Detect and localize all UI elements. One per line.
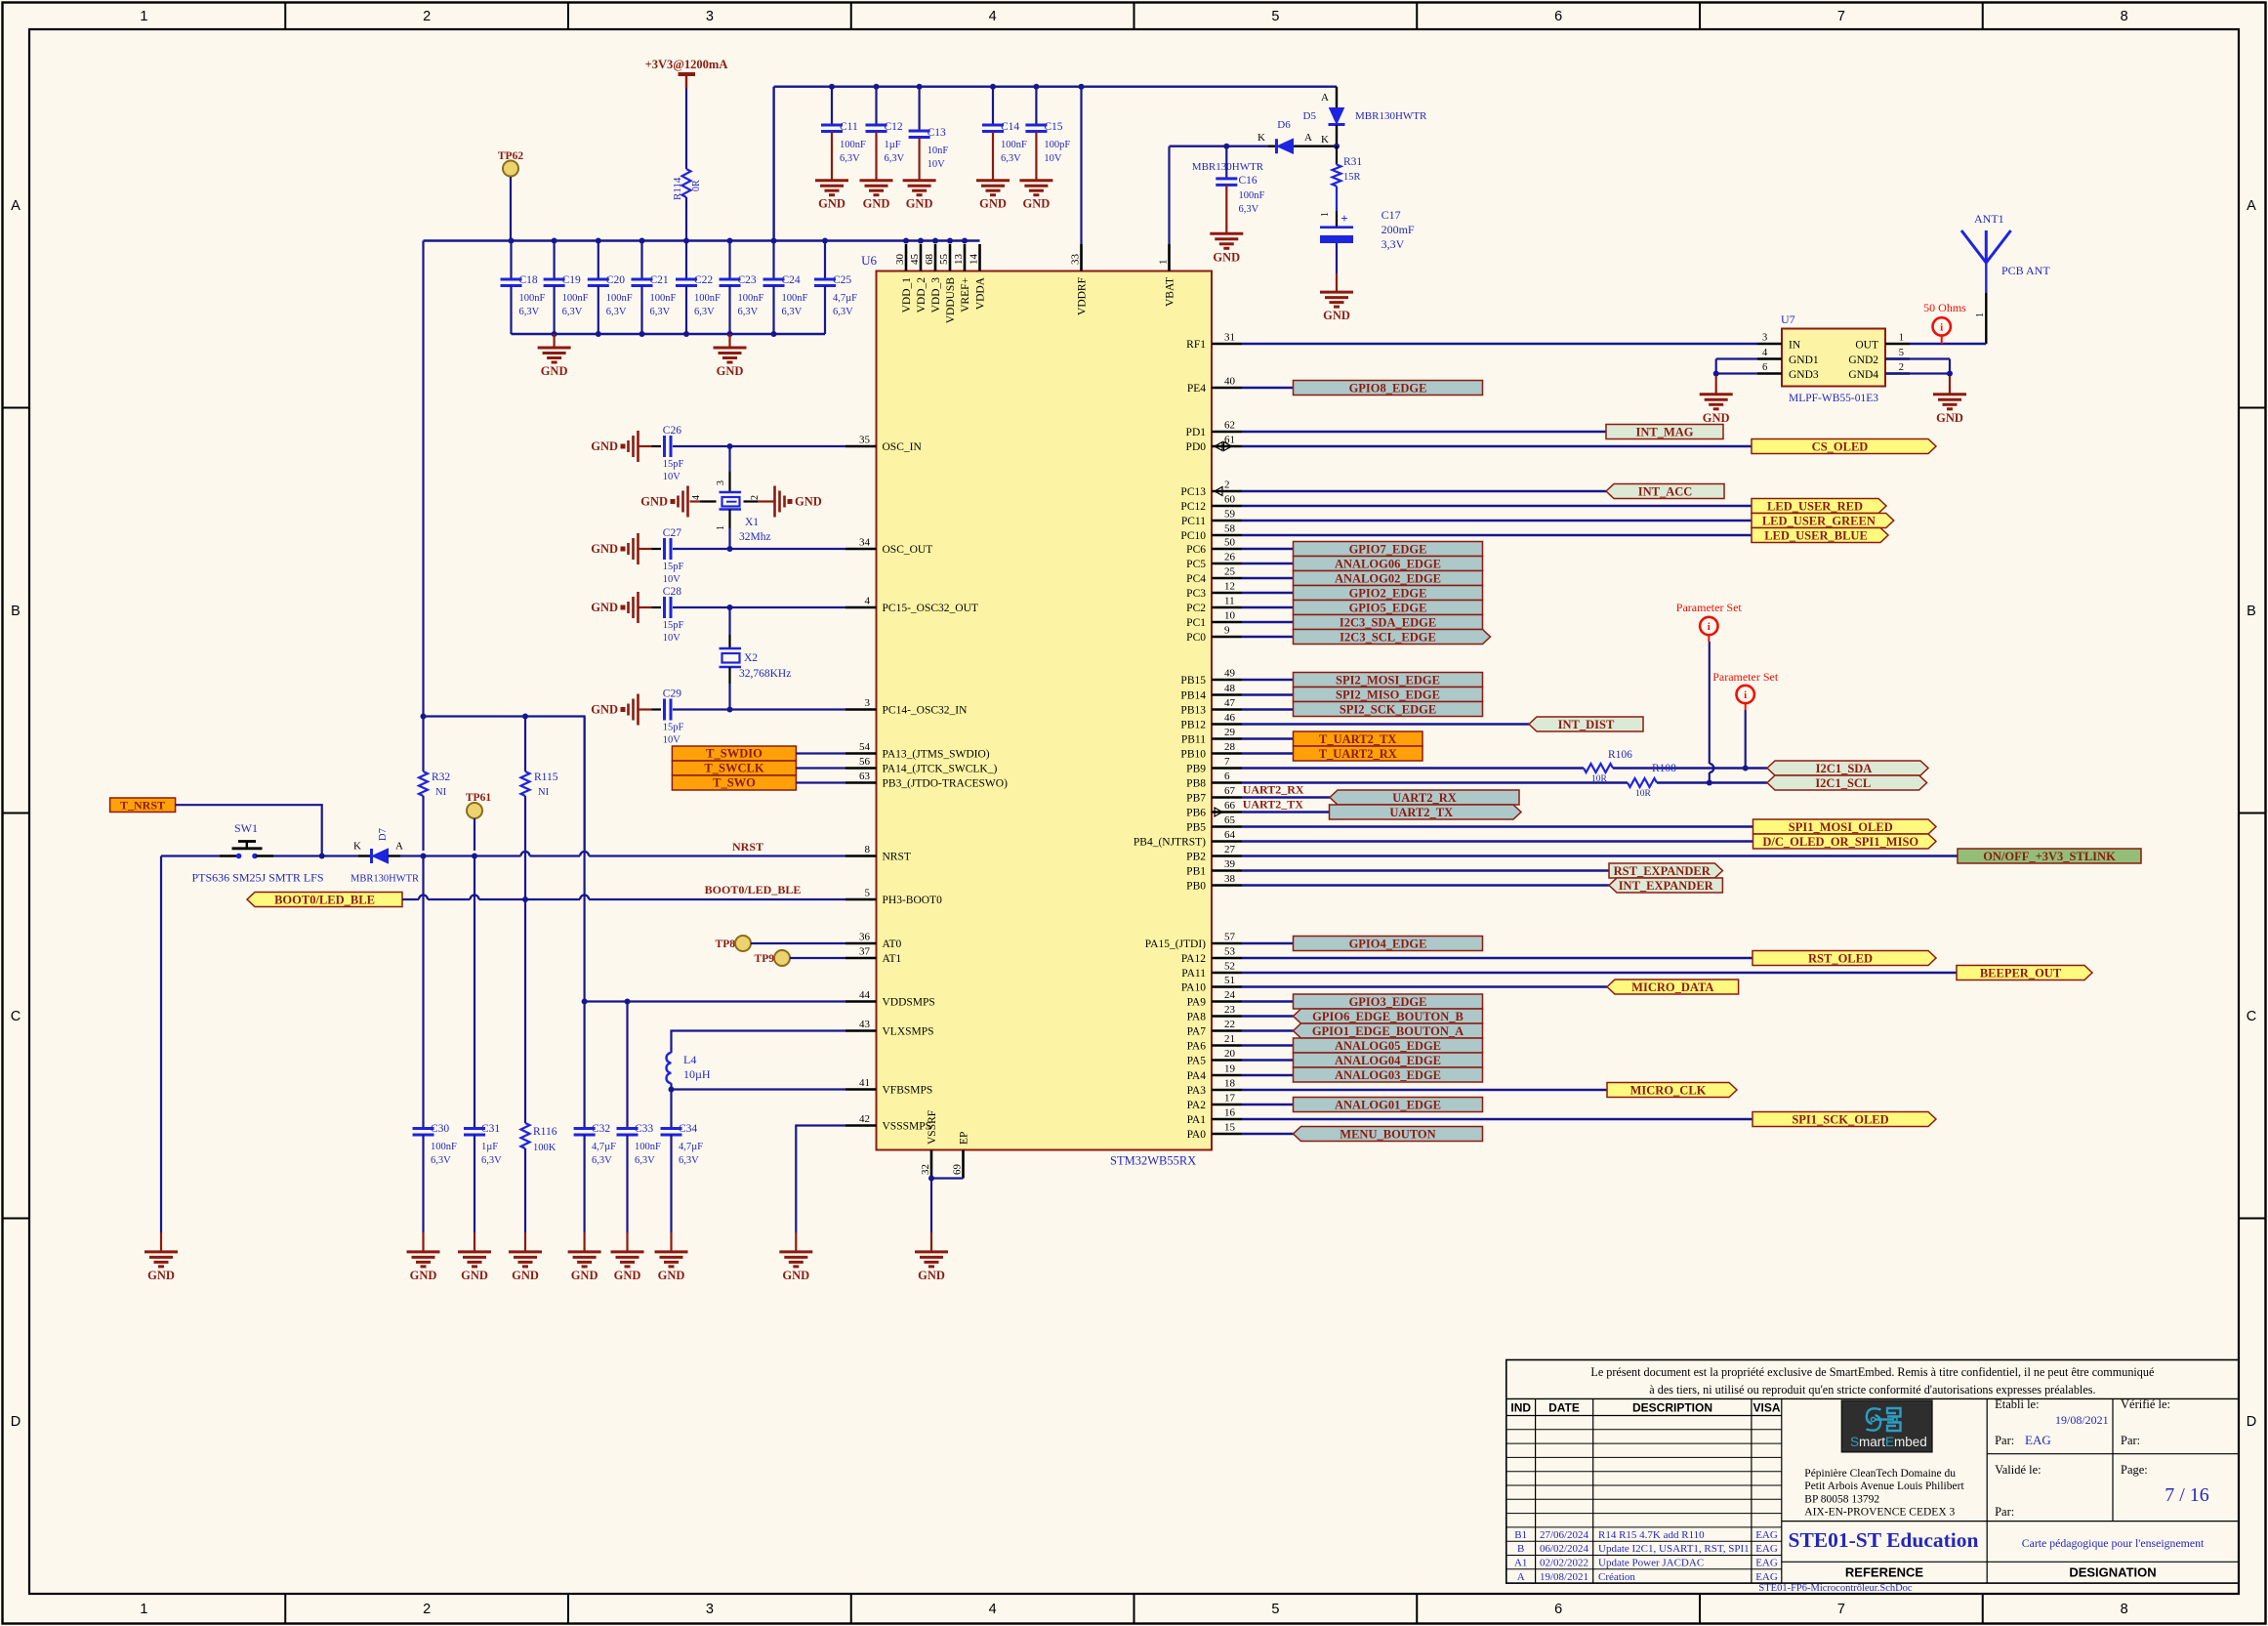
svg-text:D: D [11,1414,21,1430]
wire PA12 to RST_OLED [1242,957,1753,959]
U6 pin 32 VSSRF [920,1110,938,1179]
svg-text:13: 13 [953,254,965,266]
svg-text:37: 37 [859,946,871,958]
svg-text:R106: R106 [1608,749,1632,761]
svg-text:R114: R114 [672,177,683,200]
ground U7 right [1933,393,1966,396]
svg-text:GPIO8_EDGE: GPIO8_EDGE [1349,381,1427,395]
test point TP9 [755,950,845,966]
U6 pin 24 PA9 [1187,989,1242,1009]
svg-text:T_SWO: T_SWO [713,776,756,790]
svg-text:32,768KHz: 32,768KHz [739,668,791,680]
svg-text:PH3-BOOT0: PH3-BOOT0 [883,895,943,906]
svg-text:6,3V: 6,3V [738,307,759,317]
svg-text:PD1: PD1 [1186,427,1207,438]
ground below C31 [458,1250,491,1253]
svg-text:UART2_RX: UART2_RX [1243,783,1304,797]
port INT_ACC [1606,484,1724,499]
svg-text:C15: C15 [1044,121,1062,133]
svg-text:Le présent document est la pro: Le présent document est la propriété exc… [1590,1365,2154,1379]
svg-text:à des tiers, ni utilisé ou rep: à des tiers, ni utilisé ou reproduit qu'… [1649,1383,2095,1397]
wire column C31 below NRST [474,856,475,1129]
svg-text:C18: C18 [519,274,538,286]
port T_NRST [110,798,176,813]
svg-text:68: 68 [924,254,935,266]
port INT_EXPANDER [1609,878,1722,893]
svg-text:A: A [11,198,21,214]
svg-text:SW1: SW1 [234,821,258,835]
svg-text:C21: C21 [650,274,669,286]
svg-text:Par:: Par: [1995,1434,2014,1447]
svg-text:C33: C33 [635,1123,653,1135]
svg-text:15pF: 15pF [663,620,684,631]
svg-text:6,3V: 6,3V [481,1155,502,1166]
capacitor C17 200mF polarized [1320,208,1415,292]
svg-text:TP61: TP61 [466,792,491,804]
port MICRO_DATA [1607,980,1739,994]
svg-text:VDD_2: VDD_2 [916,277,928,313]
svg-text:L4: L4 [683,1053,696,1066]
svg-text:LED_USER_RED: LED_USER_RED [1767,499,1863,513]
svg-text:100nF: 100nF [738,293,764,304]
wire VLXSMPS net [672,1031,846,1054]
test point TP8 [716,936,845,951]
svg-text:19: 19 [1224,1063,1236,1075]
svg-text:69: 69 [952,1164,964,1176]
port stack GPIO7/ANALOG06/ANALOG02/GPIO2/GPIO5/I2C3_SDA/I2C3_SCL [1294,542,1483,557]
svg-text:27: 27 [1224,844,1236,855]
svg-text:PD0: PD0 [1186,441,1207,453]
port ON/OFF_+3V3_STLINK [1958,849,2141,863]
wire BOOT0 net [402,883,845,902]
svg-text:3: 3 [706,9,714,24]
svg-text:AT0: AT0 [883,938,902,950]
svg-text:PA11: PA11 [1181,968,1206,980]
svg-text:PB14: PB14 [1180,690,1206,702]
svg-text:C29: C29 [663,688,681,700]
svg-text:PB15: PB15 [1180,675,1206,687]
svg-text:PB11: PB11 [1181,734,1206,746]
svg-text:PA14_(JTCK_SWCLK_): PA14_(JTCK_SWCLK_) [883,764,998,775]
svg-text:B: B [2247,604,2256,619]
svg-text:C32: C32 [592,1123,610,1135]
svg-text:17: 17 [1224,1093,1236,1105]
svg-text:AT1: AT1 [883,953,902,965]
svg-text:PC2: PC2 [1186,603,1206,614]
svg-text:14: 14 [969,254,980,266]
wire PB5 to SPI1_MOSI_OLED [1242,825,1753,827]
svg-text:R14 R15 4.7K add R110: R14 R15 4.7K add R110 [1598,1529,1705,1541]
wire VSSSMPS to ground [796,1126,845,1252]
svg-text:3: 3 [1762,333,1767,344]
capacitor C29 15pF with ground tap [591,688,845,746]
U6 pin 14 VDDA [969,244,987,310]
svg-text:58: 58 [1224,523,1236,535]
svg-text:SmartEmbed: SmartEmbed [1850,1435,1927,1449]
svg-text:GND: GND [906,197,933,211]
svg-text:i: i [1940,322,1943,334]
svg-text:RST_EXPANDER: RST_EXPANDER [1614,864,1711,878]
svg-text:BP 80058 13792: BP 80058 13792 [1804,1493,1879,1505]
svg-text:15pF: 15pF [663,459,684,470]
port GPIO3_EDGE [1294,994,1483,1009]
svg-text:GPIO1_EDGE_BOUTON_A: GPIO1_EDGE_BOUTON_A [1312,1024,1464,1038]
svg-text:GND: GND [461,1269,488,1282]
svg-text:BOOT0/LED_BLE: BOOT0/LED_BLE [274,893,375,906]
svg-text:4: 4 [691,495,702,500]
svg-text:6,3V: 6,3V [885,153,905,164]
wire +3V3 top rail [774,84,1337,241]
crystal X1 left ground tap [640,486,700,518]
svg-text:SPI1_MOSI_OLED: SPI1_MOSI_OLED [1789,820,1893,834]
svg-text:1µF: 1µF [885,140,901,150]
svg-text:STE01-ST Education: STE01-ST Education [1789,1528,1979,1552]
wire column R115-R116 crossing NRST [524,851,526,899]
capacitor C14 100nF [982,87,1027,181]
svg-text:2: 2 [750,495,761,500]
U6 pin 15 PA0 [1187,1122,1242,1142]
svg-text:T_SWCLK: T_SWCLK [704,762,763,775]
svg-text:PA3: PA3 [1187,1085,1207,1097]
svg-text:67: 67 [1224,785,1236,797]
svg-text:100K: 100K [533,1143,557,1153]
svg-text:U7: U7 [1781,313,1795,326]
port GPIO4_EDGE [1294,937,1483,951]
capacitor C33 100nF [617,1002,662,1252]
svg-text:52: 52 [1224,961,1235,973]
svg-text:C23: C23 [738,274,757,286]
svg-text:GND: GND [512,1269,539,1282]
svg-text:GND1: GND1 [1789,354,1819,366]
svg-text:GND: GND [1323,309,1350,322]
svg-text:TP9: TP9 [755,953,775,965]
svg-text:VDD_1: VDD_1 [901,277,913,313]
svg-text:7: 7 [1224,756,1230,768]
svg-text:PC0: PC0 [1186,632,1206,644]
svg-text:1µF: 1µF [481,1142,498,1152]
svg-text:41: 41 [859,1077,870,1089]
svg-text:5: 5 [1271,1602,1279,1617]
svg-text:6,3V: 6,3V [650,307,671,317]
wire VDD bus [424,87,1082,244]
svg-text:56: 56 [859,756,871,768]
svg-text:C13: C13 [928,127,946,139]
svg-text:34: 34 [859,537,871,549]
U6 pin 46 PB12 [1180,712,1242,731]
svg-text:PA10: PA10 [1181,982,1206,994]
svg-text:5: 5 [865,888,871,899]
svg-text:26: 26 [1224,552,1236,563]
wires PA9..PA4 to GPIO3/ANALOG stack [1242,1002,1294,1076]
U6 pin 48 PB14 [1180,683,1242,702]
svg-text:4: 4 [989,1602,997,1617]
svg-text:100nF: 100nF [782,293,808,304]
svg-text:57: 57 [1224,932,1236,943]
svg-text:DESIGNATION: DESIGNATION [2069,1565,2156,1580]
svg-text:4: 4 [1762,348,1768,358]
svg-text:EAG: EAG [1755,1558,1778,1569]
port stack ANALOG05/04/03_EDGE [1294,1038,1483,1053]
U6 pin 10 PC1 [1186,610,1242,630]
port D/C_OLED_OR_SPI1_MISO [1753,834,1937,849]
svg-text:PB10: PB10 [1180,749,1206,761]
test point TP61 [466,792,491,851]
svg-text:SPI2_MOSI_EDGE: SPI2_MOSI_EDGE [1336,673,1440,687]
svg-text:7: 7 [1837,1602,1845,1617]
ground U7 left [1700,393,1733,396]
U6 pin 40 PE4 [1187,376,1242,396]
wire T_SWCLK to PA14 [796,767,845,769]
svg-text:33: 33 [1070,254,1082,266]
svg-text:19/08/2021: 19/08/2021 [2055,1413,2109,1427]
svg-text:2: 2 [1899,362,1904,373]
U6 pin 61 PD0 [1186,435,1242,454]
svg-text:C22: C22 [694,274,713,286]
ground below VSSRF [915,1250,948,1253]
port LED_USER_RED [1752,499,1886,514]
svg-text:50 Ohms: 50 Ohms [1923,301,1966,314]
wire NRST net [319,840,845,859]
svg-text:10V: 10V [663,735,681,746]
svg-text:49: 49 [1224,668,1236,680]
svg-text:RST_OLED: RST_OLED [1808,951,1873,965]
ground below VSSSMPS [779,1250,812,1253]
svg-text:OSC_OUT: OSC_OUT [883,544,933,556]
wire column C30 below NRST [422,856,424,1129]
capacitor C24 100nF [763,241,808,335]
capacitor C19 100nF [544,241,589,335]
svg-text:i: i [1744,689,1747,701]
wire PA10 to MICRO_DATA [1242,985,1607,987]
svg-text:PC14-_OSC32_IN: PC14-_OSC32_IN [883,705,969,717]
svg-text:20: 20 [1224,1048,1236,1060]
svg-text:GND: GND [614,1269,641,1282]
wire PB4 to D/C_OLED_OR_SPI1_MISO [1242,840,1753,842]
svg-text:6: 6 [1554,1602,1562,1617]
svg-text:D: D [2247,1414,2256,1430]
svg-text:NRST: NRST [883,852,911,863]
svg-text:30: 30 [894,254,906,266]
svg-text:BEEPER_OUT: BEEPER_OUT [1980,966,2062,980]
svg-text:GND: GND [541,364,568,378]
svg-text:100nF: 100nF [635,1142,661,1152]
svg-text:VDDSMPS: VDDSMPS [883,997,935,1009]
svg-text:GND: GND [979,197,1007,211]
inductor L4 10µH [667,1053,711,1090]
test point TP62 [498,150,523,241]
svg-text:38: 38 [1224,873,1236,885]
wires PB11 PB10 to T_UART2 ports [1242,739,1294,754]
svg-text:Update I2C1, USART1, RST, SPI1: Update I2C1, USART1, RST, SPI1 [1598,1543,1750,1555]
svg-text:GND: GND [863,197,890,211]
svg-text:GND: GND [1936,411,1963,425]
svg-text:B1: B1 [1514,1529,1527,1541]
svg-text:PA9: PA9 [1187,997,1207,1009]
capacitor C26 15pF with ground tap [591,425,845,482]
U6 pin 37 AT1 [845,946,902,966]
U6 pin 1 VBAT [1158,244,1176,307]
svg-text:VLXSMPS: VLXSMPS [883,1026,934,1038]
svg-text:100pF: 100pF [1044,140,1070,150]
svg-text:3: 3 [706,1602,714,1617]
svg-text:ANALOG01_EDGE: ANALOG01_EDGE [1335,1098,1441,1111]
wires PC6..PC0 to GPIO7 stack [1242,549,1294,637]
resistor R32 NI pull-up [419,241,450,852]
svg-text:29: 29 [1224,727,1236,738]
svg-text:6,3V: 6,3V [694,307,715,317]
svg-text:REFERENCE: REFERENCE [1845,1565,1924,1580]
U6 pin 68 VDD_3 [924,244,942,313]
port SPI1_SCK_OLED [1753,1112,1936,1127]
power flag +3V3@1200mA [645,58,728,88]
U6 pin 23 PA8 [1187,1004,1242,1023]
U6 pin 66 PB6 [1186,800,1242,819]
svg-text:65: 65 [1224,814,1236,826]
ground below C23 [714,334,747,378]
svg-text:35: 35 [859,435,871,446]
wire NRST left leg to ground [160,856,162,1252]
capacitor C16 100nF [1216,146,1264,234]
svg-text:100nF: 100nF [694,293,721,304]
svg-text:ANT1: ANT1 [1974,212,2004,226]
svg-text:ANALOG06_EDGE: ANALOG06_EDGE [1335,557,1441,570]
U6 pin 56 PA14_(JTCK_SWCLK_) [845,756,997,775]
svg-text:C28: C28 [663,586,681,598]
svg-text:PC3: PC3 [1186,588,1206,600]
svg-text:C19: C19 [562,274,581,286]
svg-text:PB1: PB1 [1186,866,1206,878]
svg-text:EP: EP [959,1132,970,1145]
svg-text:A: A [2247,198,2256,214]
svg-text:100nF: 100nF [562,293,589,304]
svg-text:Pépinière CleanTech Domaine du: Pépinière CleanTech Domaine du [1804,1468,1956,1480]
U6 pin 47 PB13 [1180,697,1242,717]
svg-text:NRST: NRST [732,840,763,854]
svg-text:GND: GND [658,1269,685,1282]
svg-text:PC11: PC11 [1181,516,1206,527]
wire RF1 to U7 [1242,343,1757,345]
svg-text:Parameter Set: Parameter Set [1676,601,1743,614]
svg-text:PC12: PC12 [1180,501,1206,513]
svg-text:DESCRIPTION: DESCRIPTION [1632,1401,1712,1415]
U6 pin 9 PC0 [1186,625,1242,645]
svg-text:CS_OLED: CS_OLED [1812,439,1869,453]
svg-text:GND: GND [782,1269,809,1282]
svg-text:21: 21 [1224,1033,1235,1045]
U6 pin 17 PA2 [1187,1093,1242,1112]
svg-text:6,3V: 6,3V [431,1155,451,1166]
svg-text:10R: 10R [1635,789,1652,799]
svg-text:10nF: 10nF [928,146,949,156]
svg-text:10V: 10V [663,472,681,482]
port LED_USER_BLUE [1752,528,1888,543]
SmartEmbed logo [1841,1400,1932,1452]
ground below C17 [1320,291,1353,294]
U6 pin 30 VDD_1 [894,244,913,313]
svg-text:PCB ANT: PCB ANT [2001,264,2050,277]
svg-text:39: 39 [1224,858,1236,870]
svg-text:PTS636 SM25J SMTR LFS: PTS636 SM25J SMTR LFS [191,871,323,885]
svg-text:GPIO4_EDGE: GPIO4_EDGE [1349,937,1427,950]
port I2C1_SDA [1767,761,1928,775]
svg-text:2: 2 [423,1602,431,1617]
svg-text:VDDUSB: VDDUSB [945,277,957,324]
port UART2_TX [1330,805,1522,819]
U6 pin 39 PB1 [1186,858,1242,878]
svg-text:TP62: TP62 [498,150,523,162]
wire PB6 to UART2_TX with net label [1242,798,1330,813]
svg-text:PB4_(NJTRST): PB4_(NJTRST) [1134,837,1206,849]
svg-text:VSSSMPS: VSSSMPS [883,1121,932,1133]
U6 pin 19 PA4 [1187,1063,1242,1083]
wire U7 left grounds [1713,359,1757,395]
resistor R114 0R [672,88,702,241]
U6 pin 16 PA1 [1187,1107,1242,1127]
U6 pin 52 PA11 [1181,961,1242,980]
svg-text:PB5: PB5 [1186,822,1206,834]
svg-text:51: 51 [1224,975,1235,986]
svg-text:6,3V: 6,3V [840,153,860,164]
svg-text:MLPF-WB55-01E3: MLPF-WB55-01E3 [1789,393,1878,404]
svg-text:0R: 0R [691,180,702,191]
svg-text:GND2: GND2 [1848,354,1878,366]
ground below C16 [1210,232,1243,235]
svg-text:GND: GND [918,1269,945,1282]
svg-text:47: 47 [1224,697,1236,709]
wire PD0 to CS_OLED [1242,445,1752,447]
svg-text:6,3V: 6,3V [1239,204,1259,215]
wire U7 OUT to antenna [1910,343,1986,345]
microcontroller U6 STM32WB55RX body [861,253,1212,1168]
svg-text:C12: C12 [885,121,903,133]
RF filter U7 MLPF-WB55-01E3 [1757,313,1910,404]
svg-text:64: 64 [1224,829,1236,841]
svg-text:IN: IN [1789,340,1801,352]
svg-text:46: 46 [1224,712,1236,724]
svg-text:BOOT0/LED_BLE: BOOT0/LED_BLE [705,883,802,896]
svg-text:VISA: VISA [1753,1401,1780,1415]
svg-text:8: 8 [2121,9,2128,24]
svg-text:PC13: PC13 [1180,486,1206,498]
svg-text:C14: C14 [1001,121,1019,133]
svg-text:2: 2 [423,9,431,24]
wire PB0 to INT_EXPANDER [1242,884,1609,886]
U6 pin 53 PA12 [1181,946,1242,966]
port SPI1_MOSI_OLED [1753,819,1937,834]
wire PA1 to SPI1_SCK_OLED [1242,1118,1753,1120]
U6 pin 26 PC5 [1186,552,1242,571]
U6 pin 27 PB2 [1186,844,1242,863]
svg-text:PB3_(JTDO-TRACESWO): PB3_(JTDO-TRACESWO) [883,778,1009,790]
U6 pin 28 PB10 [1180,741,1242,761]
U6 pin 35 OSC_IN [845,435,922,454]
svg-text:32Mhz: 32Mhz [739,531,771,543]
svg-text:4: 4 [989,9,997,24]
U6 pin 12 PC3 [1186,581,1242,601]
svg-text:C24: C24 [782,274,801,286]
svg-text:LED_USER_BLUE: LED_USER_BLUE [1764,528,1868,542]
port MENU_BOUTON [1294,1127,1483,1142]
svg-text:DATE: DATE [1548,1401,1580,1415]
svg-text:B: B [11,604,21,619]
capacitor C34 4,7µF [661,1090,704,1252]
U6 pin 58 PC10 [1180,523,1242,543]
svg-text:C11: C11 [840,121,858,133]
ground below C34 [655,1250,688,1253]
svg-text:X1: X1 [745,517,759,528]
svg-text:48: 48 [1224,683,1236,694]
svg-text:GPIO7_EDGE: GPIO7_EDGE [1349,542,1427,556]
